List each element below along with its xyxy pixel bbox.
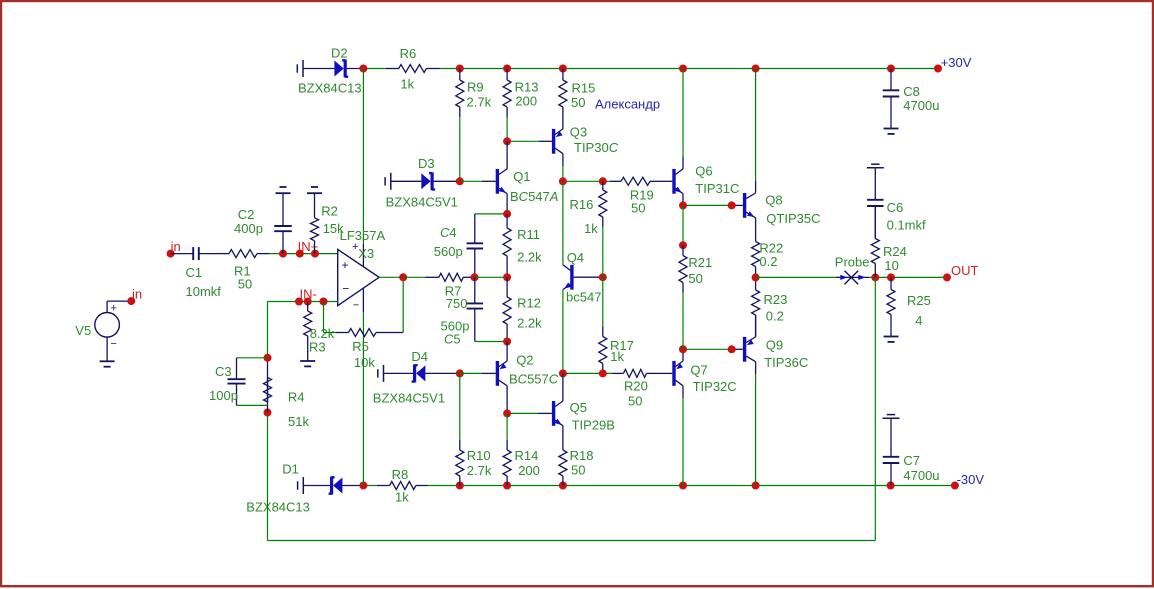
ground below V5 — [100, 355, 115, 367]
ground below C8 — [884, 123, 899, 134]
zener diode D2 — [297, 60, 363, 78]
wire Q2 base stub — [482, 372, 496, 374]
junction on -30V rail — [456, 482, 464, 490]
resistor R13 — [503, 69, 511, 118]
svg-text:BC557C: BC557C — [509, 371, 559, 386]
wire to R11/R12 junction — [475, 276, 508, 278]
wire R20 to Q7 base — [660, 372, 672, 374]
svg-text:10mkf: 10mkf — [186, 284, 222, 299]
junction on -30V rail — [887, 482, 895, 490]
svg-text:QTIP35C: QTIP35C — [766, 211, 820, 226]
node R21 top — [679, 241, 687, 249]
wire R13 to Q3 base node — [506, 117, 508, 141]
zener diode D1 — [298, 477, 364, 495]
resistor R22 — [752, 218, 760, 278]
svg-text:2.2k: 2.2k — [517, 316, 542, 331]
svg-text:4700u: 4700u — [903, 468, 939, 483]
resistor R5 — [336, 329, 390, 337]
resistor R2 — [311, 193, 319, 253]
wire Q1 base stub — [482, 180, 496, 182]
svg-text:R20: R20 — [624, 379, 648, 394]
svg-text:X3: X3 — [358, 246, 374, 261]
junction on -30V rail — [752, 482, 760, 490]
resistor R12 — [503, 277, 511, 341]
wire Q7 emitter stub — [682, 349, 684, 361]
junction on -30V rail — [679, 482, 687, 490]
transistor Q3 — [554, 129, 563, 154]
svg-text:R3: R3 — [309, 339, 326, 354]
wire up to op-amp output — [402, 277, 404, 332]
wire Q8 collector to +30V rail — [755, 69, 757, 182]
zener diode D4 — [378, 364, 460, 382]
capacitor C2 — [274, 193, 292, 253]
wire IN- net — [268, 301, 338, 303]
svg-text:Q1: Q1 — [513, 169, 530, 184]
transistor Q2 — [497, 361, 507, 386]
svg-text:10: 10 — [884, 258, 898, 273]
svg-text:400p: 400p — [234, 221, 263, 236]
svg-text:200: 200 — [518, 463, 540, 478]
wire Q5 base node down to R14 — [506, 413, 508, 440]
wire R5 to output node — [390, 332, 403, 334]
resistor R10 — [456, 440, 464, 486]
wire to R5 — [324, 332, 337, 334]
svg-text:V5: V5 — [75, 323, 91, 338]
svg-text:R24: R24 — [883, 244, 907, 259]
node R17 bottom — [599, 369, 607, 377]
resistor R4 — [264, 358, 272, 413]
wire Q4 base to R16/R17 junction — [574, 276, 603, 278]
node R16 top — [599, 177, 607, 185]
wire Q1 base — [460, 180, 482, 182]
svg-text:Q5: Q5 — [570, 400, 587, 415]
svg-text:1k: 1k — [395, 490, 409, 505]
wire V+ supply stub — [362, 244, 364, 267]
resistor R18 — [559, 426, 567, 486]
svg-text:C8: C8 — [903, 84, 920, 99]
node R5 branch — [320, 298, 328, 306]
svg-text:−: − — [111, 338, 117, 350]
svg-text:D1: D1 — [282, 462, 299, 477]
pin marker C6 top — [867, 164, 884, 168]
svg-text:R4: R4 — [288, 389, 305, 404]
wire bias line down to Q4 collector — [562, 181, 564, 264]
wire Q6 emitter stub — [682, 194, 684, 206]
svg-text:−: − — [342, 282, 349, 296]
wire probe to OUT — [869, 276, 947, 278]
capacitor C8 — [883, 69, 900, 123]
wire IN+ to op-amp — [269, 253, 338, 255]
svg-text:R16: R16 — [570, 197, 594, 212]
svg-text:50: 50 — [571, 462, 585, 477]
svg-text:51k: 51k — [288, 414, 309, 429]
svg-text:R14: R14 — [515, 448, 539, 463]
svg-text:LF357A: LF357A — [340, 228, 386, 243]
transistor Q9 — [745, 337, 756, 362]
resistor R14 — [503, 440, 511, 486]
resistor R16 — [599, 181, 607, 227]
wire output node to probe — [756, 276, 836, 278]
ground above C2 (inverted) — [276, 187, 291, 193]
wire Q4 emitter down to bias bottom — [562, 290, 564, 374]
svg-text:R5: R5 — [352, 339, 369, 354]
wire Q3 collector down — [562, 166, 564, 181]
svg-text:IN-: IN- — [300, 287, 317, 302]
wire op-amp output — [379, 276, 403, 278]
svg-text:50: 50 — [631, 200, 645, 215]
wire feedback up to R4 — [267, 413, 269, 541]
voltage source V5 — [95, 301, 132, 355]
resistor R20 — [612, 369, 660, 377]
wire Q6 emitter to Q8 base — [683, 204, 732, 206]
junction on -30V rail — [503, 482, 511, 490]
wire Q9 base stub — [732, 348, 743, 350]
wire Q2 emitter up — [506, 342, 508, 362]
wire V- supply stub — [362, 288, 364, 312]
svg-text:2.2k: 2.2k — [517, 249, 542, 264]
resistor R15 — [559, 69, 567, 130]
node Q2 collector / R14 / Q5 base — [503, 409, 511, 417]
op-amp X3 LF357A — [338, 241, 379, 311]
wire feedback: output down — [874, 277, 876, 540]
node OUT — [943, 273, 951, 281]
svg-text:+: + — [111, 303, 117, 315]
wire R9 to D3 node — [459, 117, 461, 181]
svg-text:Q9: Q9 — [766, 337, 783, 352]
svg-text:Q7: Q7 — [690, 362, 707, 377]
resistor R21 — [679, 245, 687, 292]
resistor R1 — [215, 250, 269, 258]
wire V- supply: op-amp to -30V rail — [362, 312, 364, 486]
svg-text:BZX84C13: BZX84C13 — [298, 81, 362, 96]
svg-text:R18: R18 — [570, 448, 594, 463]
wire to R7 — [403, 276, 425, 278]
svg-text:BC547A: BC547A — [510, 189, 558, 204]
node R4 top / C3 top / IN- branch — [264, 354, 272, 362]
svg-text:R13: R13 — [515, 80, 539, 95]
probe icon — [836, 271, 869, 285]
svg-text:50: 50 — [238, 276, 252, 291]
junction on +30V rail — [503, 65, 511, 73]
svg-text:C1: C1 — [186, 265, 203, 280]
capacitor C4 — [467, 214, 484, 277]
svg-text:in: in — [171, 239, 181, 254]
resistor R24 — [871, 206, 879, 278]
node R4 bottom / C3 bottom — [264, 409, 272, 417]
svg-text:R23: R23 — [764, 292, 788, 307]
svg-text:OUT: OUT — [951, 263, 979, 278]
node C2 bottom — [279, 250, 287, 258]
svg-text:2.7k: 2.7k — [467, 94, 492, 109]
junction on +30V rail — [559, 65, 567, 73]
resistor R9 — [456, 69, 464, 118]
wire Q2 collector down — [506, 386, 508, 414]
svg-text:R15: R15 — [572, 81, 596, 96]
svg-text:4700u: 4700u — [903, 98, 939, 113]
svg-text:BZX84C13: BZX84C13 — [246, 500, 310, 515]
svg-text:1k: 1k — [610, 349, 624, 364]
svg-text:Probe: Probe — [835, 255, 870, 270]
svg-text:TIP29B: TIP29B — [572, 418, 615, 433]
node R12 bottom / Q2 emitter — [503, 338, 511, 346]
resistor R8 — [377, 482, 428, 490]
svg-text:2.7k: 2.7k — [467, 463, 492, 478]
capacitor C3 — [228, 358, 268, 406]
transistor Q5 — [554, 401, 563, 426]
wire -30V rail: D1 to R8 — [363, 485, 377, 487]
wire Q7 emitter to Q9 base — [683, 348, 732, 350]
svg-text:R2: R2 — [321, 204, 338, 219]
wire Q2 base — [460, 372, 482, 374]
wire feedback bottom run — [268, 540, 876, 542]
wire D4 node down to R10 — [459, 373, 461, 440]
junction on +30V rail — [359, 65, 367, 73]
svg-text:D2: D2 — [331, 45, 348, 60]
svg-text:Q3: Q3 — [570, 125, 587, 140]
wire C5 bottom to R12 bottom — [475, 341, 507, 343]
transistor Q7 — [674, 361, 683, 386]
svg-text:C6: C6 — [887, 200, 904, 215]
svg-text:750: 750 — [446, 296, 468, 311]
svg-text:+30V: +30V — [941, 55, 972, 70]
wire V+ supply: +30V rail to op-amp — [362, 69, 364, 245]
svg-text:Q2: Q2 — [516, 353, 533, 368]
node R24 bottom / feedback tap — [871, 273, 879, 281]
capacitor C1 — [171, 247, 215, 260]
wire Q2 collector to Q5 base — [507, 412, 538, 414]
svg-text:Q8: Q8 — [765, 192, 782, 207]
node wire joint Q8 base — [728, 201, 736, 209]
svg-text:−: − — [353, 300, 359, 312]
svg-text:R21: R21 — [688, 255, 712, 270]
resistor R7 — [425, 273, 474, 281]
wire IN- down to feedback node — [267, 302, 269, 358]
junction on -30V rail — [559, 482, 567, 490]
svg-text:10k: 10k — [354, 355, 375, 370]
wire Q3 base — [507, 140, 539, 142]
svg-text:R8: R8 — [392, 467, 409, 482]
svg-text:-30V: -30V — [957, 472, 985, 487]
wire IN- branch down to R5 — [323, 302, 325, 333]
svg-text:R11: R11 — [517, 227, 540, 242]
svg-text:C7: C7 — [903, 453, 920, 468]
node D3 / R9 / Q1 base — [456, 177, 464, 185]
transistor Q8 — [745, 193, 756, 218]
node Q1 emitter / R11 top — [503, 210, 511, 218]
resistor R11 — [503, 214, 511, 277]
zener diode D3 — [385, 172, 460, 190]
wire Q1 collector up — [506, 141, 508, 169]
resistor R17 — [599, 327, 607, 374]
node Q3 base / R13 / Q1 collector — [503, 137, 511, 145]
resistor R23 — [752, 277, 760, 337]
wire -30V rail — [428, 485, 955, 487]
ground below R25 — [884, 331, 899, 342]
resistor R25 — [887, 277, 895, 330]
svg-text:0.2: 0.2 — [766, 308, 784, 323]
node R25 top — [887, 273, 895, 281]
node in at V5 — [127, 297, 135, 305]
svg-text:BZX84C5V1: BZX84C5V1 — [386, 194, 458, 209]
svg-text:TIP31C: TIP31C — [695, 181, 739, 196]
svg-text:C5: C5 — [444, 332, 461, 347]
wire Q3 collector row to R19 — [563, 180, 610, 182]
resistor R3 — [304, 302, 312, 356]
svg-text:C3: C3 — [215, 364, 232, 379]
node IN- label anchor — [295, 298, 303, 306]
wire +30V rail — [440, 68, 938, 70]
transistor Q6 — [674, 169, 683, 194]
svg-text:TIP36C: TIP36C — [764, 355, 808, 370]
svg-text:0.1mkf: 0.1mkf — [887, 217, 926, 232]
svg-text:BZX84C5V1: BZX84C5V1 — [373, 390, 445, 405]
ground below R3 — [300, 355, 315, 366]
svg-text:100p: 100p — [209, 388, 238, 403]
svg-text:C4: C4 — [440, 225, 457, 240]
wire Q9 collector to -30V rail — [755, 374, 757, 486]
svg-text:R6: R6 — [400, 46, 417, 61]
wire Q8 base stub — [732, 204, 743, 206]
svg-text:1k: 1k — [584, 221, 598, 236]
node bias line bottom / Q5 collector — [559, 369, 567, 377]
svg-text:0.2: 0.2 — [759, 254, 777, 269]
wire Q4 base node to R17 — [602, 277, 604, 326]
junction on -30V rail — [951, 482, 959, 490]
transistor Q1 — [497, 169, 507, 194]
svg-text:50: 50 — [628, 394, 642, 409]
wire Q7 collector to -30V rail — [682, 398, 684, 486]
node Q3 collector / bias line — [559, 177, 567, 185]
wire Q6 collector to +30V rail — [682, 69, 684, 158]
svg-text:R10: R10 — [467, 448, 491, 463]
node wire joint Q9 base — [728, 345, 736, 353]
svg-text:in: in — [132, 287, 142, 302]
junction on +30V rail — [456, 65, 464, 73]
junction on +30V rail — [887, 65, 895, 73]
node R2 bottom — [311, 250, 319, 258]
svg-text:D4: D4 — [411, 349, 428, 364]
node Q6 emitter — [679, 201, 687, 209]
node Q4 base / R16 / R17 — [599, 273, 607, 281]
pin marker C7 top — [883, 415, 900, 419]
svg-text:R12: R12 — [517, 295, 541, 310]
wire Q6 collector stub — [682, 157, 684, 169]
svg-text:560p: 560p — [434, 244, 463, 259]
svg-text:D3: D3 — [418, 156, 435, 171]
wire Q1 emitter down — [506, 194, 508, 214]
node R7 / C4 / C5 — [471, 273, 479, 281]
svg-text:Александр: Александр — [595, 97, 660, 112]
svg-text:Q6: Q6 — [695, 164, 712, 179]
wire C4 top to Q1 emitter — [475, 213, 507, 215]
wire +30V rail: D2 to R6 — [363, 68, 385, 70]
svg-text:200: 200 — [515, 94, 537, 109]
junction on -30V rail — [359, 482, 367, 490]
svg-text:4: 4 — [915, 313, 922, 328]
wire bias bottom to R20 — [563, 372, 612, 374]
resistor R6 — [386, 65, 440, 73]
wire Q8 collector stub — [755, 181, 757, 193]
ground above R2 (inverted) — [307, 187, 322, 193]
capacitor C5 — [467, 277, 484, 341]
wire Q9 emitter up to R23 — [755, 315, 757, 337]
capacitor C6 — [867, 168, 884, 239]
svg-text:TIP32C: TIP32C — [693, 379, 737, 394]
svg-text:bc547: bc547 — [566, 289, 601, 304]
svg-text:C2: C2 — [238, 207, 255, 222]
node D4 / R10 / Q2 base — [456, 369, 464, 377]
resistor R19 — [610, 177, 660, 185]
svg-text:50: 50 — [571, 95, 585, 110]
node in — [167, 250, 175, 258]
node R3 top — [304, 298, 312, 306]
wire R16 to Q4 base node — [602, 227, 604, 277]
wire Q7 collector stub — [682, 386, 684, 398]
wire R21 to Q7 emitter node — [682, 293, 684, 350]
svg-text:1k: 1k — [400, 77, 414, 92]
junction on +30V rail — [752, 65, 760, 73]
svg-text:+: + — [342, 258, 349, 272]
svg-text:R9: R9 — [467, 79, 484, 94]
junction on +30V rail — [934, 65, 942, 73]
svg-text:TIP30C: TIP30C — [574, 140, 619, 155]
svg-text:50: 50 — [688, 271, 702, 286]
wire Q6 emitter to R21 — [682, 205, 684, 245]
svg-text:R25: R25 — [907, 293, 931, 308]
node R22 / R23 junction — [752, 273, 760, 281]
node Q7 emitter / R21 bottom — [679, 345, 687, 353]
wire Q3 collector stub — [562, 154, 564, 166]
junction on +30V rail — [679, 65, 687, 73]
capacitor C7 — [883, 418, 900, 485]
transistor Q4 — [563, 265, 572, 290]
wire R19 to Q6 base — [660, 180, 672, 182]
node IN+ label anchor — [296, 250, 304, 258]
wire Q5 base stub — [538, 412, 552, 414]
wire Q9 collector stub — [755, 362, 757, 374]
wire Q3 base stub — [539, 140, 552, 142]
svg-text:Q4: Q4 — [567, 250, 584, 265]
node op-amp output / R5 / R7 — [399, 273, 407, 281]
node R11 / R12 junction — [503, 273, 511, 281]
wire Q5 collector up — [562, 373, 564, 401]
